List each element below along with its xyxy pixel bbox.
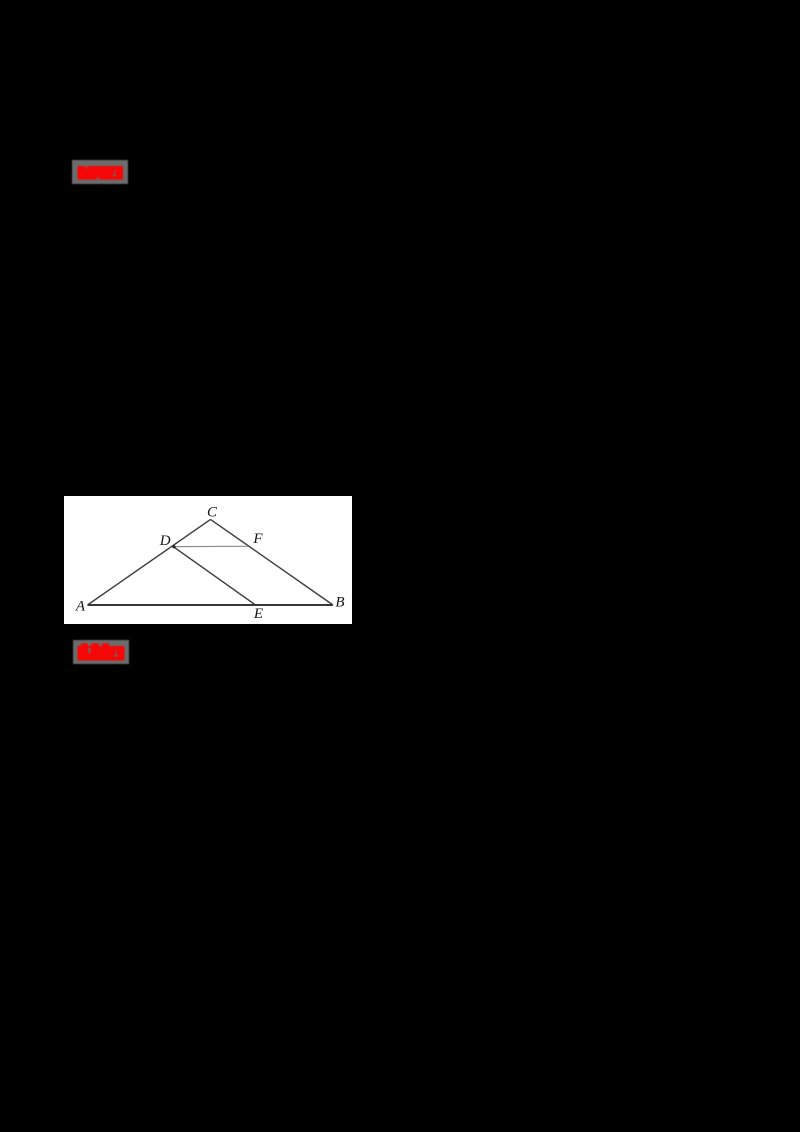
wire DE bbox=[174, 547, 256, 605]
wire CB bbox=[211, 519, 334, 605]
svg-text:F: F bbox=[252, 531, 263, 547]
svg-text:A: A bbox=[75, 598, 86, 614]
wire AC bbox=[88, 519, 211, 605]
wire DF bbox=[174, 545, 248, 547]
red answer label 2 bbox=[73, 640, 129, 664]
svg-text:D: D bbox=[159, 533, 171, 549]
svg-text:C: C bbox=[207, 504, 218, 520]
svg-text:E: E bbox=[253, 606, 263, 622]
svg-text:B: B bbox=[335, 594, 344, 610]
node D junction dot bbox=[172, 545, 175, 548]
white diagram panel bbox=[64, 496, 352, 625]
red answer label 1 bbox=[72, 160, 128, 184]
wire AB bbox=[88, 604, 334, 606]
